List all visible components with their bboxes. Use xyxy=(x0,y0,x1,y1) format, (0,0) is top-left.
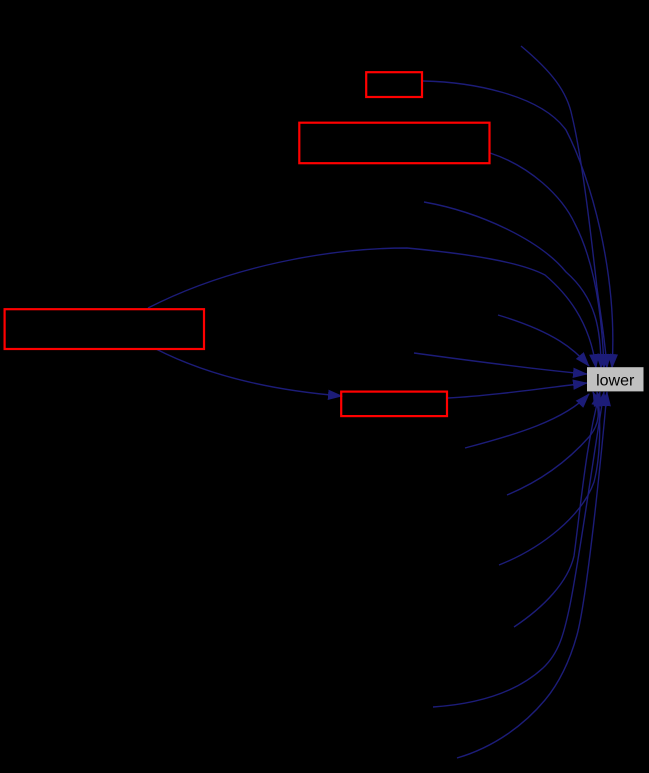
svg-text:lower: lower xyxy=(596,372,635,389)
